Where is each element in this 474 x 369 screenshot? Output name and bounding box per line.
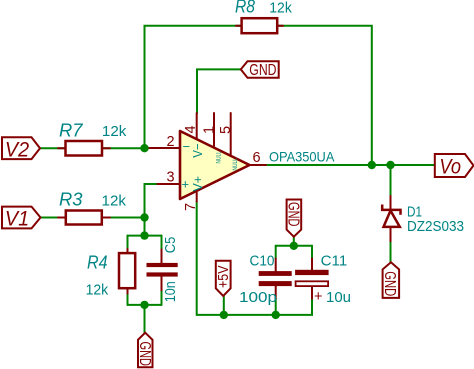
node pin2/feedback [140, 144, 148, 152]
svg-text:C11: C11 [321, 252, 348, 269]
svg-text:10n: 10n [162, 281, 179, 302]
svg-text:C10: C10 [250, 252, 275, 269]
pin 7 V+ supply [196, 191, 198, 201]
global label GND (below D1) [381, 262, 399, 298]
global label GND (below R4/C5) [136, 333, 153, 368]
svg-text:OPA350UA: OPA350UA [269, 149, 335, 165]
global label GND (op-amp pin4) [241, 61, 279, 79]
svg-text:5: 5 [218, 126, 234, 134]
wire RC loop left vertical (R4 branch) [127, 236, 129, 249]
svg-text:12k: 12k [102, 123, 127, 140]
svg-text:12k: 12k [102, 193, 127, 210]
node C10 rail tap [272, 311, 280, 319]
svg-text:R4: R4 [87, 251, 108, 272]
node RC loop bottom [140, 301, 148, 309]
svg-text:Vo: Vo [439, 155, 461, 178]
svg-text:GND: GND [249, 62, 276, 79]
resistor R3 [58, 211, 110, 225]
wire C11 top riser [311, 246, 313, 259]
global label +5V [215, 261, 232, 296]
wire pin3 node up and right to pin 3 [145, 184, 158, 218]
node RC loop top [140, 231, 148, 239]
wire V1 to R3 to pin3 node [41, 217, 145, 219]
wire cap top rail [276, 245, 312, 247]
node pin3/V1 [140, 213, 148, 221]
svg-text:12k: 12k [269, 0, 292, 17]
capacitor C10 [259, 259, 292, 299]
global label V2 [2, 137, 40, 161]
svg-text:+: + [182, 177, 190, 192]
svg-text:+5V: +5V [215, 266, 232, 289]
op-amp U1 body [180, 131, 250, 199]
svg-text:GND: GND [136, 342, 153, 367]
wire C10 riser bottom [275, 299, 277, 315]
global label Vo [435, 154, 474, 178]
pin 3 non-inverting input [158, 183, 181, 185]
node D1/output [386, 161, 394, 169]
svg-text:C5: C5 [162, 237, 179, 254]
pin 5 null [230, 113, 232, 156]
svg-text:100p: 100p [239, 289, 277, 306]
svg-text:NULL: NULL [232, 158, 239, 171]
capacitor C11 (polarized) [295, 259, 329, 299]
resistor R7 [58, 141, 110, 156]
svg-text:1: 1 [202, 126, 218, 134]
wire RC loop top [128, 235, 162, 237]
svg-text:2: 2 [167, 134, 175, 150]
wire V2 to R7 to pin2 node [40, 147, 148, 149]
pin 4 V- supply [196, 113, 198, 139]
node cap gnd tap [290, 242, 298, 250]
wire RC loop drop from V1 node [144, 218, 146, 236]
wire GND flag to cap top rail [293, 237, 295, 246]
pin 2 inverting input [148, 147, 181, 149]
pin 6 output [250, 164, 267, 166]
capacitor C5 [147, 249, 178, 290]
svg-text:4: 4 [183, 125, 199, 133]
global label V1 [2, 207, 41, 231]
svg-text:12k: 12k [86, 282, 109, 299]
svg-text:3: 3 [167, 170, 175, 186]
svg-text:R8: R8 [235, 0, 256, 17]
svg-text:R3: R3 [59, 189, 83, 210]
wire D1 to GND flag [390, 241, 392, 262]
svg-text:GND: GND [381, 271, 398, 296]
wire RC loop right vertical (C5 branch) [161, 236, 163, 250]
svg-text:−: − [183, 139, 191, 154]
pin 1 null [213, 113, 215, 148]
wire GND flag to pin 4 [197, 69, 241, 113]
global label GND (caps top) [284, 200, 301, 237]
wire RC loop bottom [128, 304, 162, 306]
svg-text:V1: V1 [5, 208, 29, 231]
node +5V rail tap [220, 311, 228, 319]
wire feedback net: pin2 junction up, across top, down to output [145, 26, 372, 165]
svg-text:6: 6 [253, 150, 261, 166]
resistor R8 [236, 18, 283, 33]
wire C10 top riser [275, 246, 277, 259]
svg-text:V2: V2 [5, 138, 30, 161]
wire +5V flag drop [223, 296, 225, 315]
svg-text:7: 7 [183, 203, 199, 211]
node feedback/output [368, 161, 376, 169]
svg-text:10u: 10u [326, 289, 351, 306]
wire RC loop to GND flag [144, 305, 146, 333]
svg-text:GND: GND [284, 202, 301, 227]
wire output net pin6 to Vo [266, 164, 435, 166]
svg-text:DZ2S033: DZ2S033 [407, 219, 464, 235]
zener diode D1 [382, 196, 400, 241]
svg-text:NULL: NULL [216, 151, 223, 164]
svg-text:V−: V− [190, 143, 205, 158]
svg-text:R7: R7 [59, 120, 83, 141]
svg-text:+: + [314, 289, 322, 305]
wire D1 branch down [390, 165, 392, 196]
wire pin7 down and bottom +5V rail [197, 202, 312, 315]
svg-text:V+: V+ [190, 176, 205, 192]
resistor R4 [119, 249, 135, 294]
